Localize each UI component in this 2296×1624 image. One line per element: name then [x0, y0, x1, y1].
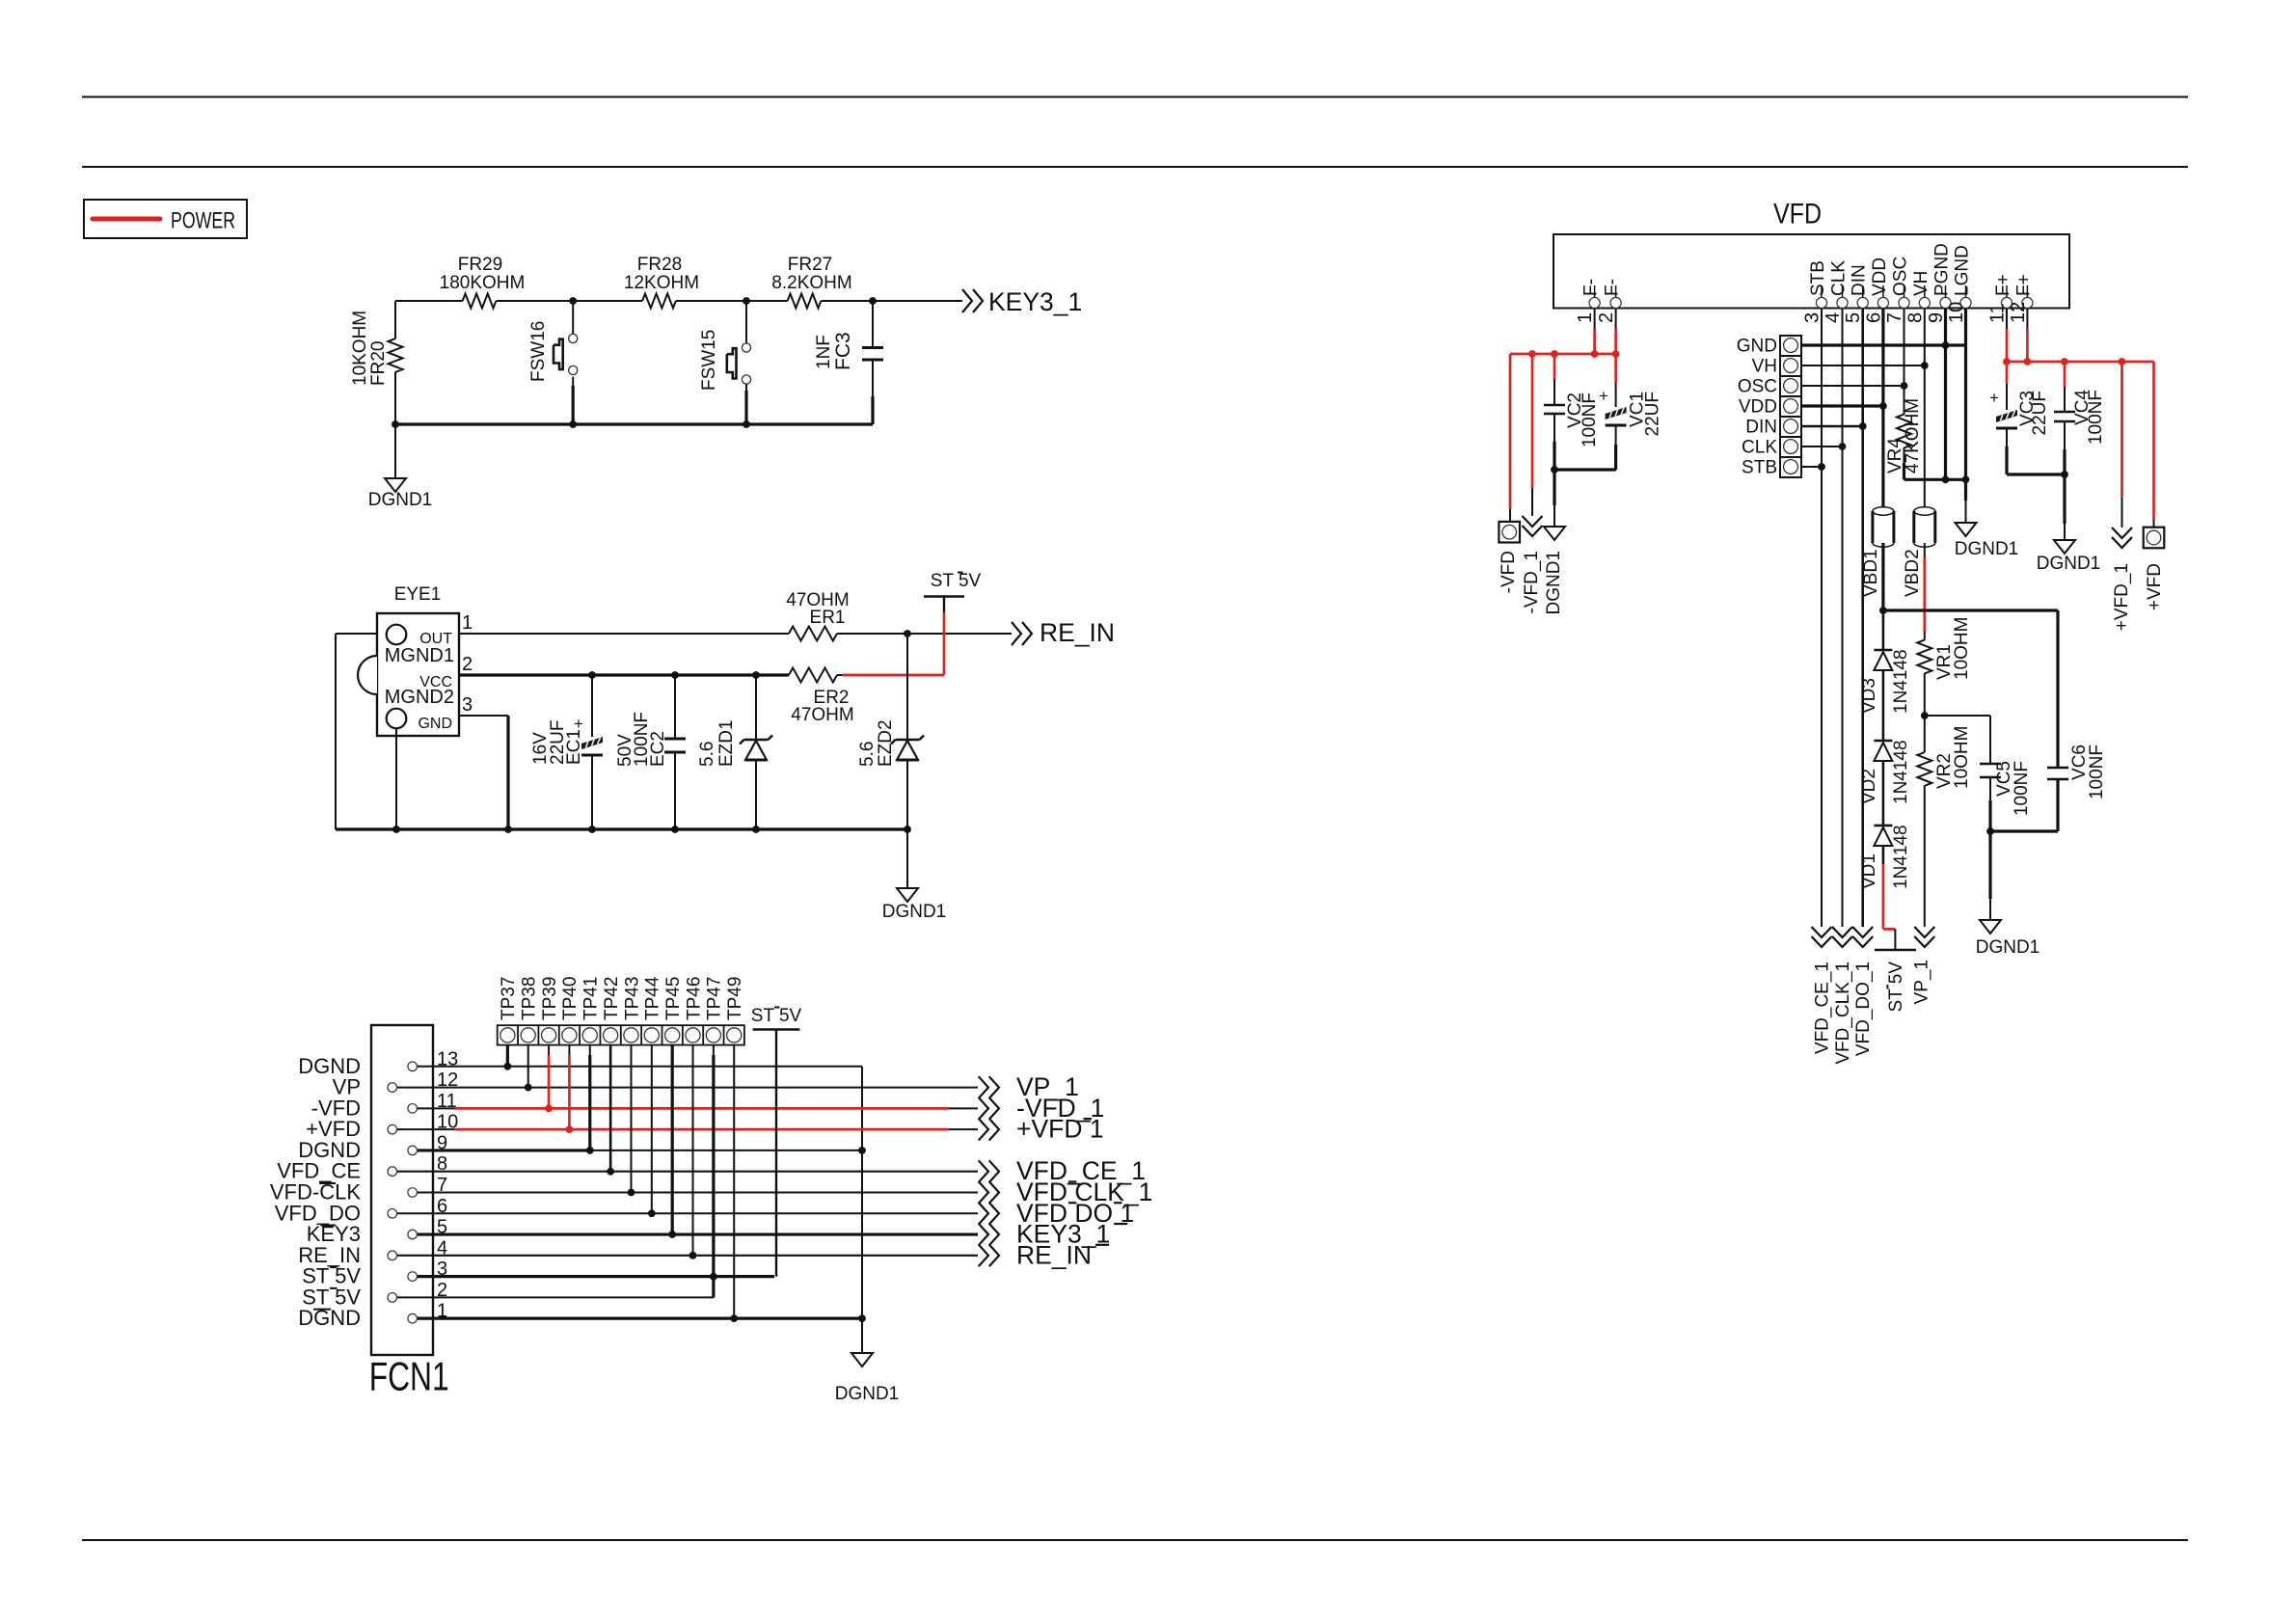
svg-text:1: 1 — [1575, 312, 1596, 323]
svg-text:180KOHM: 180KOHM — [440, 273, 526, 293]
svg-text:TP43: TP43 — [622, 977, 642, 1020]
svg-text:GND: GND — [1737, 337, 1777, 357]
svg-text:TP37: TP37 — [499, 977, 519, 1020]
svg-text:5: 5 — [1843, 312, 1864, 323]
svg-text:8.2KOHM: 8.2KOHM — [771, 273, 851, 293]
svg-text:LGND: LGND — [1953, 245, 1973, 296]
svg-text:1: 1 — [437, 1301, 447, 1322]
svg-text:F+: F+ — [2013, 274, 2034, 296]
svg-text:TP47: TP47 — [705, 977, 725, 1020]
svg-text:+: + — [1599, 387, 1608, 405]
svg-text:+: + — [1989, 389, 1999, 407]
svg-text:OSC: OSC — [1738, 377, 1777, 397]
svg-text:CLK: CLK — [1742, 438, 1777, 458]
svg-text:8: 8 — [437, 1153, 447, 1175]
svg-text:47KOHM: 47KOHM — [1903, 398, 1923, 474]
svg-text:VFD_CE_1: VFD_CE_1 — [1813, 961, 1833, 1054]
svg-text:EZD1: EZD1 — [716, 719, 737, 767]
svg-text:TP46: TP46 — [684, 977, 704, 1020]
svg-text:DIN: DIN — [1745, 418, 1777, 438]
svg-text:FR20: FR20 — [368, 341, 389, 386]
svg-text:F+: F+ — [1993, 274, 2013, 296]
svg-text:100NF: 100NF — [2086, 390, 2106, 445]
svg-text:TP44: TP44 — [643, 976, 663, 1020]
svg-text:100NF: 100NF — [2087, 744, 2107, 799]
svg-text:VH: VH — [1911, 271, 1931, 296]
svg-text:ER1: ER1 — [810, 608, 846, 628]
svg-text:MGND2: MGND2 — [385, 687, 454, 708]
svg-text:TP38: TP38 — [520, 977, 540, 1020]
svg-text:TP39: TP39 — [540, 977, 560, 1020]
svg-text:12: 12 — [2008, 302, 2029, 323]
svg-text:VFD: VFD — [1773, 199, 1822, 230]
svg-text:VDD: VDD — [1739, 397, 1777, 418]
svg-text:VD3: VD3 — [1859, 678, 1879, 714]
svg-text:+VFD_1: +VFD_1 — [2112, 563, 2132, 631]
svg-text:12: 12 — [437, 1069, 458, 1091]
svg-text:12KOHM: 12KOHM — [624, 273, 699, 293]
svg-text:PGND: PGND — [1932, 243, 1953, 296]
svg-text:FR28: FR28 — [637, 255, 682, 275]
svg-text:9: 9 — [437, 1132, 447, 1153]
svg-text:TP41: TP41 — [581, 977, 602, 1020]
svg-text:6: 6 — [437, 1196, 447, 1217]
svg-text:10: 10 — [437, 1112, 458, 1133]
svg-text:FC3: FC3 — [832, 332, 854, 370]
svg-text:10KOHM: 10KOHM — [350, 311, 370, 386]
svg-text:DGND1: DGND1 — [1955, 539, 2019, 559]
svg-text:11: 11 — [1987, 303, 2009, 323]
svg-text:+VFD: +VFD — [2145, 563, 2165, 610]
svg-text:3: 3 — [1802, 312, 1823, 323]
svg-text:DGND1: DGND1 — [835, 1384, 900, 1404]
svg-text:VH: VH — [1752, 357, 1777, 377]
svg-text:2: 2 — [437, 1280, 447, 1301]
svg-text:3: 3 — [437, 1259, 447, 1280]
svg-text:FR27: FR27 — [788, 255, 832, 275]
svg-text:1N4148: 1N4148 — [1891, 825, 1911, 889]
svg-text:DGND1: DGND1 — [1544, 551, 1564, 615]
svg-text:ST 5V: ST 5V — [751, 1006, 802, 1026]
svg-text:TP45: TP45 — [663, 977, 684, 1020]
svg-text:1NF: 1NF — [814, 335, 834, 369]
svg-text:DGND1: DGND1 — [368, 490, 433, 510]
svg-text:100NF: 100NF — [1580, 392, 1600, 447]
svg-text:22UF: 22UF — [1643, 392, 1663, 436]
svg-text:EC2: EC2 — [648, 731, 668, 767]
svg-text:3: 3 — [462, 694, 473, 716]
svg-text:VBD2: VBD2 — [1903, 549, 1923, 597]
svg-text:F-: F- — [1603, 279, 1623, 296]
svg-text:100NF: 100NF — [2012, 761, 2032, 816]
svg-text:22UF: 22UF — [2030, 391, 2050, 435]
svg-text:VD1: VD1 — [1859, 853, 1879, 889]
svg-text:VFD_CLK_1: VFD_CLK_1 — [1833, 961, 1853, 1065]
svg-text:-VFD_1: -VFD_1 — [1522, 551, 1542, 613]
svg-text:TP49: TP49 — [725, 977, 745, 1020]
svg-text:MGND1: MGND1 — [385, 645, 454, 666]
svg-text:7: 7 — [1884, 312, 1905, 323]
svg-text:5: 5 — [437, 1217, 447, 1238]
svg-text:STB: STB — [1808, 260, 1828, 296]
svg-text:5.6: 5.6 — [857, 742, 878, 767]
svg-text:OSC: OSC — [1891, 257, 1911, 296]
svg-text:5.6: 5.6 — [697, 742, 717, 767]
svg-text:VDD: VDD — [1870, 257, 1890, 296]
svg-text:FCN1: FCN1 — [369, 1354, 449, 1399]
svg-text:RE_IN: RE_IN — [1040, 618, 1115, 647]
svg-text:10OHM: 10OHM — [1952, 726, 1972, 789]
svg-text:DGND1: DGND1 — [1976, 937, 2040, 958]
svg-text:FSW15: FSW15 — [699, 330, 719, 391]
svg-text:ST 5V: ST 5V — [1886, 961, 1906, 1013]
svg-text:KEY3_1: KEY3_1 — [988, 287, 1082, 316]
svg-text:6: 6 — [1863, 312, 1884, 323]
svg-text:CLK: CLK — [1829, 260, 1850, 296]
svg-text:2: 2 — [462, 654, 473, 675]
svg-text:TP42: TP42 — [602, 977, 622, 1020]
svg-text:VP_1: VP_1 — [1911, 960, 1931, 1004]
svg-text:ST 5V: ST 5V — [931, 571, 982, 591]
svg-text:10: 10 — [1946, 302, 1967, 323]
svg-text:VD2: VD2 — [1859, 769, 1879, 804]
svg-text:EC1: EC1 — [564, 729, 584, 765]
svg-text:2: 2 — [1596, 312, 1617, 323]
svg-text:RE_IN: RE_IN — [1016, 1240, 1092, 1269]
svg-text:GND: GND — [418, 716, 452, 732]
svg-text:TP40: TP40 — [560, 977, 581, 1020]
svg-text:11: 11 — [437, 1091, 457, 1112]
svg-text:8: 8 — [1904, 312, 1926, 323]
svg-text:7: 7 — [437, 1175, 447, 1196]
svg-text:1N4148: 1N4148 — [1891, 740, 1911, 804]
svg-text:VFD_DO_1: VFD_DO_1 — [1853, 961, 1874, 1056]
svg-text:13: 13 — [437, 1048, 458, 1069]
svg-text:4: 4 — [437, 1237, 447, 1259]
svg-text:F-: F- — [1581, 279, 1602, 296]
svg-text:STB: STB — [1742, 458, 1777, 478]
svg-text:1: 1 — [462, 612, 473, 634]
svg-text:FSW16: FSW16 — [528, 321, 549, 382]
svg-text:FR29: FR29 — [458, 255, 502, 275]
svg-text:EZD2: EZD2 — [876, 719, 896, 767]
svg-text:DIN: DIN — [1850, 264, 1870, 296]
svg-text:47OHM: 47OHM — [791, 705, 853, 725]
svg-text:-VFD: -VFD — [1499, 551, 1519, 593]
svg-text:POWER: POWER — [171, 208, 235, 234]
svg-text:DGND1: DGND1 — [2037, 554, 2101, 574]
svg-text:EYE1: EYE1 — [394, 584, 442, 605]
svg-text:VBD1: VBD1 — [1861, 549, 1881, 597]
svg-text:9: 9 — [1926, 312, 1947, 323]
svg-text:10OHM: 10OHM — [1952, 617, 1972, 680]
svg-text:1N4148: 1N4148 — [1891, 649, 1911, 714]
svg-text:DGND1: DGND1 — [882, 902, 947, 922]
svg-text:4: 4 — [1823, 312, 1844, 323]
